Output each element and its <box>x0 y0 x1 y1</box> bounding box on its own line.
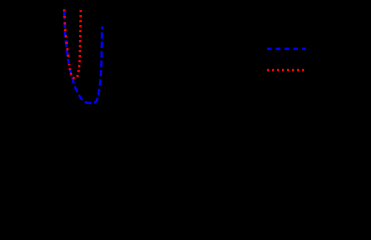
legend sample blue dashed <box>267 48 306 51</box>
legend sample red dotted <box>267 69 305 72</box>
curve blue dashed (wide U) <box>64 9 102 103</box>
curve red dotted left branch <box>64 9 69 60</box>
curve red dotted right branch <box>69 10 81 78</box>
